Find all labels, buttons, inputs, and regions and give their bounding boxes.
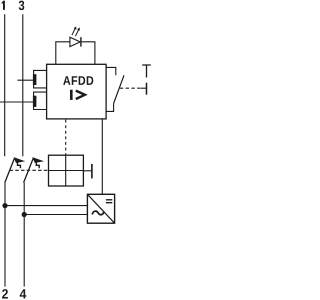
trip unit plunger bar	[91, 164, 93, 179]
pole 2 latch staircase	[36, 162, 39, 168]
dashed trip line (AFDD to trip unit)	[65, 120, 67, 156]
pole 1 arrow flag	[14, 157, 26, 163]
pole 2 blade	[24, 158, 34, 182]
wire: line 1 upper vertical	[4, 14, 6, 156]
CT sensor 1 core bar	[33, 74, 37, 85]
terminal label 1	[2, 1, 5, 10]
I> overcurrent symbol	[70, 90, 73, 100]
breaker contact: hinge stub bottom	[106, 103, 114, 111]
trip unit square	[49, 155, 84, 186]
pole 2 arrow flag	[32, 157, 44, 163]
mechanical linkage dashes (right)	[120, 87, 141, 89]
CT sensor 1 loop	[34, 70, 47, 88]
wire: line 4 lower vertical	[23, 183, 25, 287]
LED D1 triangle	[70, 37, 80, 46]
junction dot node B	[22, 212, 27, 217]
wire: AFDD box to converter	[101, 119, 103, 194]
CT sensor 2 loop	[34, 92, 47, 109]
terminal label 3	[19, 1, 25, 11]
LED emission arrow b	[75, 30, 78, 37]
breaker contact: blade	[114, 75, 124, 103]
terminal label 2	[2, 289, 8, 298]
wire: line 3 upper vertical	[22, 14, 24, 156]
wire: sensor 1 input	[17, 79, 33, 81]
LED emission arrow a	[72, 29, 75, 36]
AC/DC converter box U2	[87, 194, 114, 223]
handle T	[142, 65, 151, 78]
converter AC tilde	[92, 211, 104, 215]
pole 1 blade	[5, 158, 15, 182]
converter DC bars	[106, 200, 112, 203]
handle bar	[146, 83, 148, 95]
LED D1 cathode bar	[80, 37, 82, 46]
trip unit cross vertical	[65, 155, 67, 186]
wire: node A to converter	[5, 205, 87, 207]
LED loop wire	[56, 42, 95, 65]
trip unit cross horizontal	[49, 170, 84, 172]
pole 1 latch staircase	[18, 162, 21, 168]
wire: sensor 2 input	[0, 101, 33, 103]
AFDD box U1	[47, 64, 107, 119]
CT sensor 2 core bar	[33, 96, 37, 107]
mechanical linkage dashes (left, across poles)	[10, 169, 49, 171]
wire: node B to converter	[24, 214, 87, 216]
AFDD label	[63, 76, 93, 85]
terminal label 4	[20, 289, 27, 298]
breaker contact: fixed stub top right	[106, 67, 116, 75]
converter diagonal	[87, 194, 114, 223]
junction dot node A	[2, 203, 7, 208]
trip unit plunger wire	[83, 170, 91, 172]
wire: line 2 lower vertical	[4, 183, 6, 287]
